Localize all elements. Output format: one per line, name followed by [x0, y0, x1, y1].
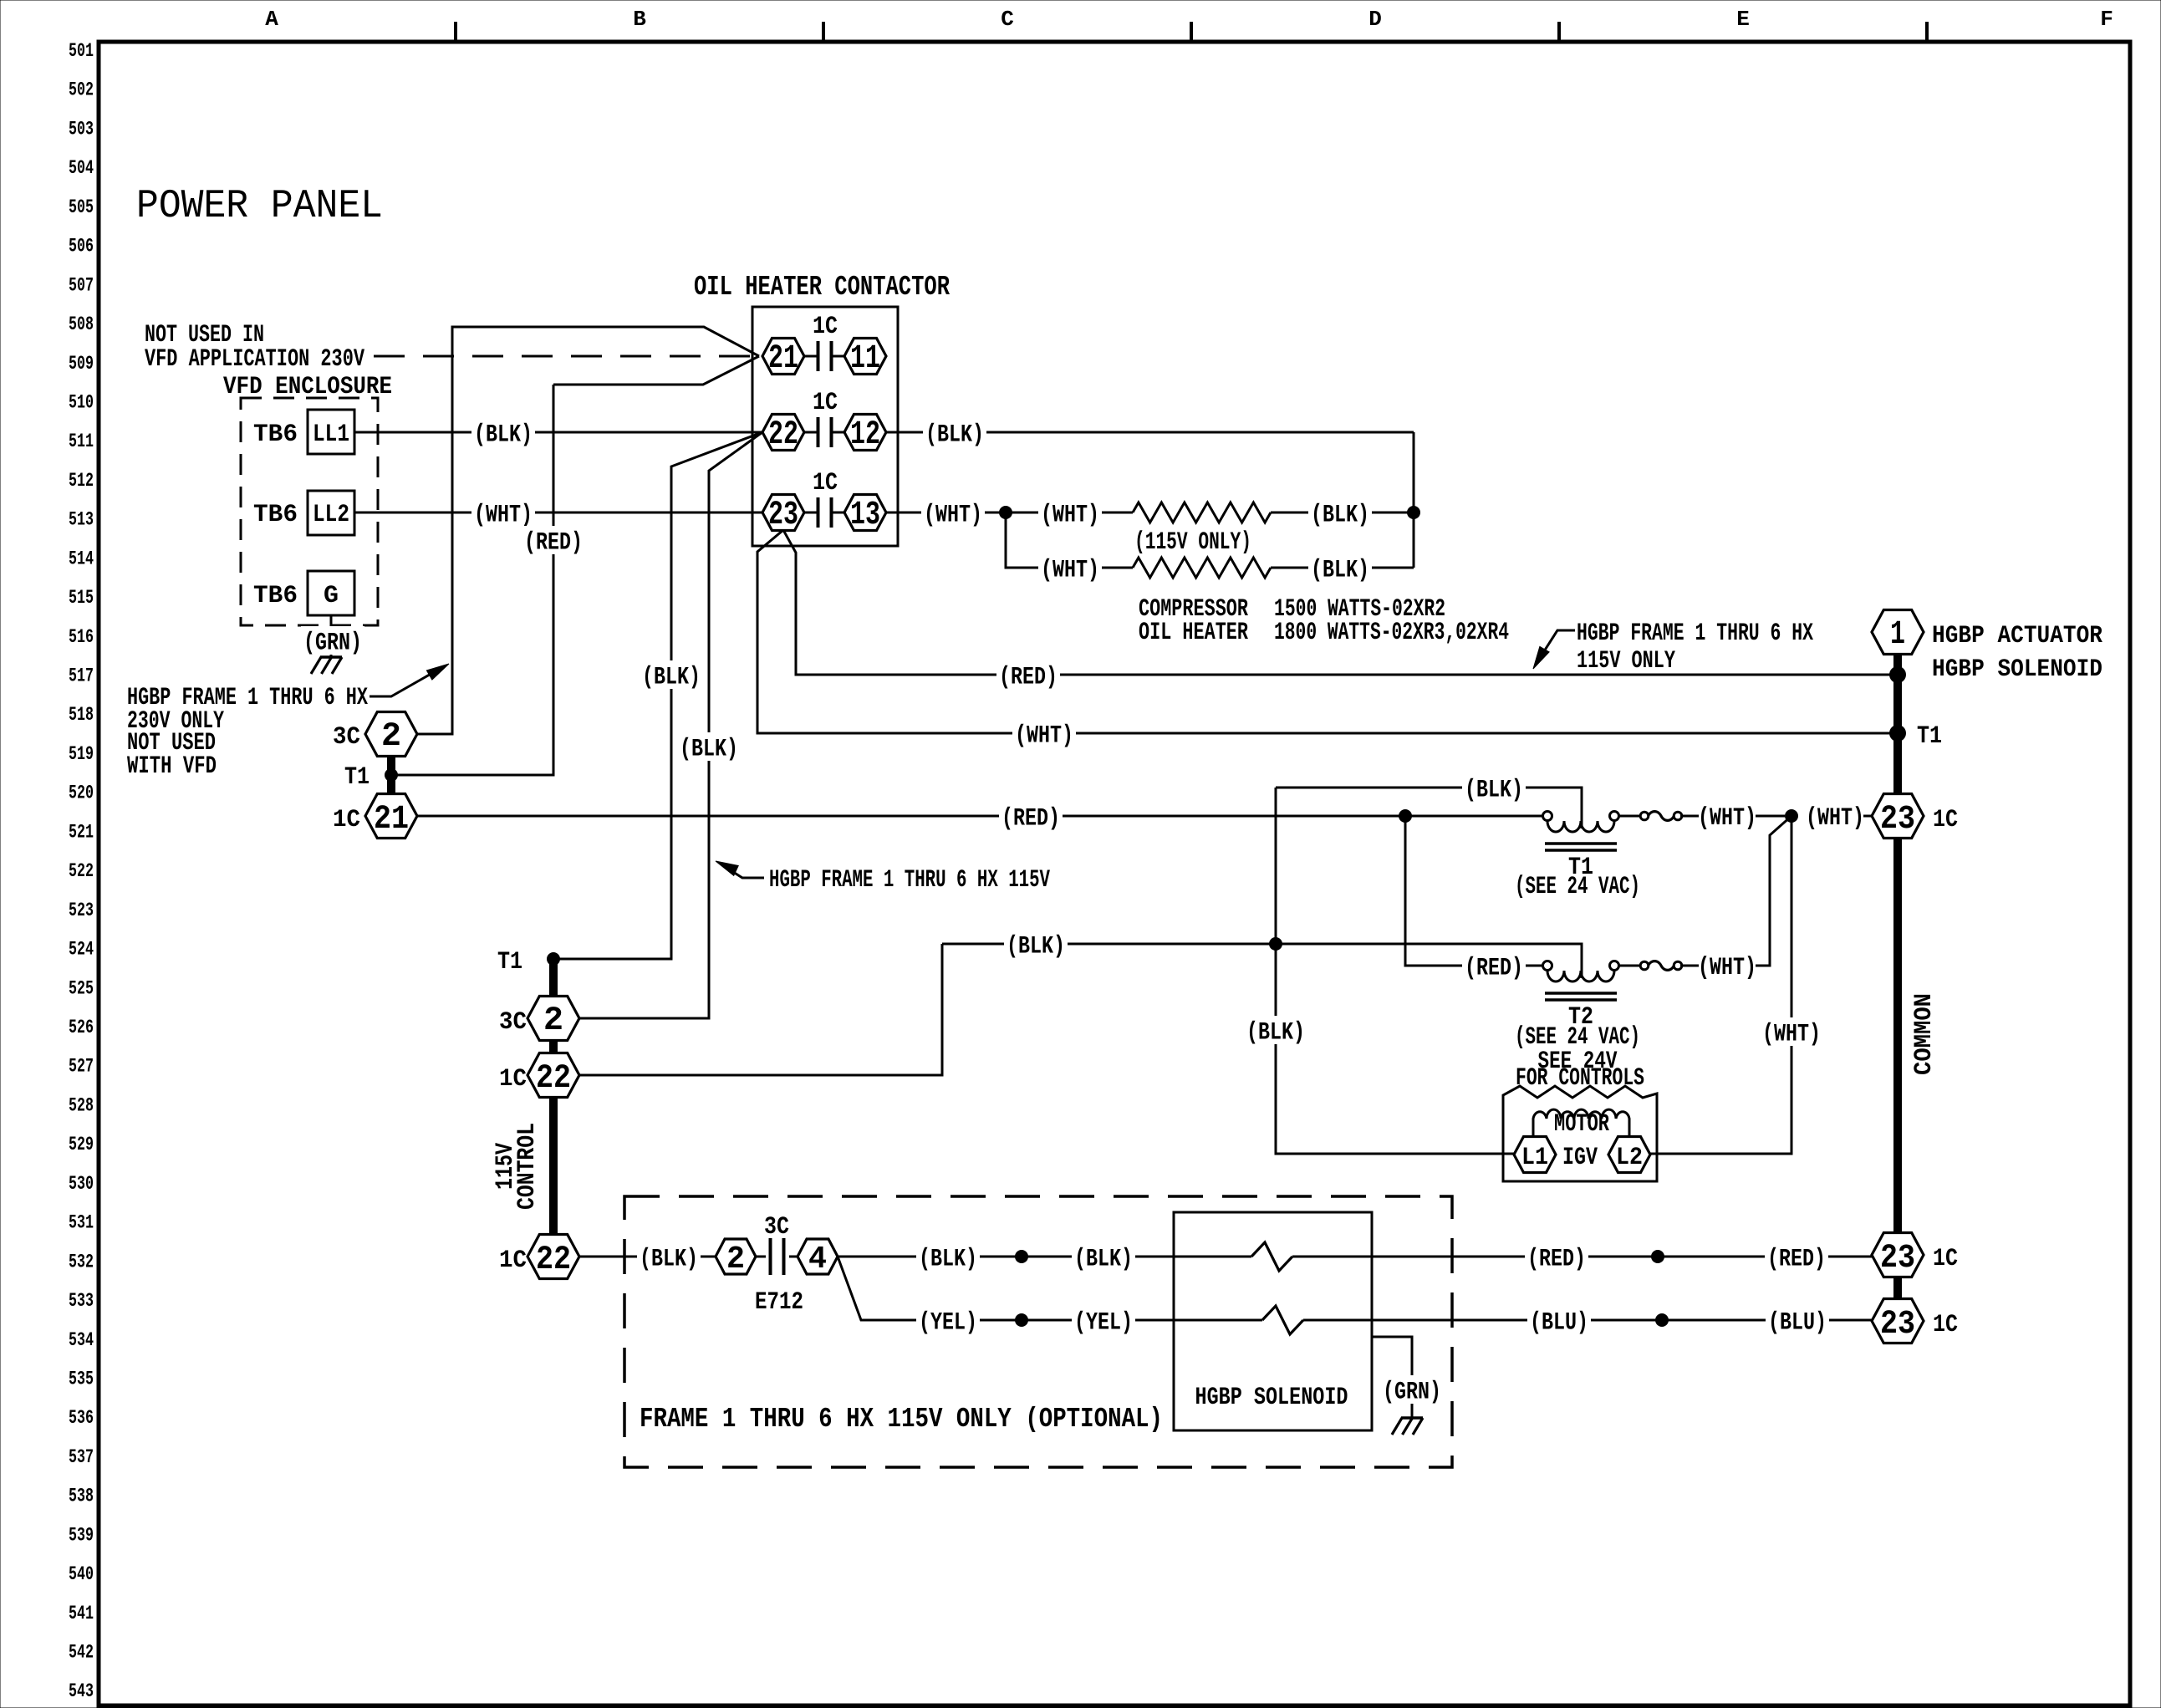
svg-text:(GRN): (GRN)	[303, 630, 362, 658]
svg-text:MOTOR: MOTOR	[1554, 1110, 1609, 1139]
wire 22 to (BLK) vertical x848	[579, 432, 762, 1018]
junction dot WHT x2143	[1785, 809, 1798, 823]
svg-text:3C: 3C	[764, 1213, 789, 1241]
vertical resistor join x1691	[1413, 432, 1415, 568]
svg-text:WITH VFD: WITH VFD	[127, 752, 217, 781]
svg-text:513: 513	[69, 509, 94, 531]
wire 1C-22 up to BLK rail2	[579, 944, 942, 1075]
svg-text:526: 526	[69, 1017, 94, 1038]
junction dot T2 branch	[1399, 809, 1412, 823]
wire T1 mid to x803	[553, 958, 671, 961]
svg-text:F: F	[2100, 7, 2113, 32]
svg-text:TB6: TB6	[253, 421, 298, 449]
hex 1 HGBP	[1872, 610, 1924, 655]
svg-text:1C: 1C	[333, 806, 360, 834]
fuse T1	[1618, 815, 1641, 818]
svg-text:537: 537	[69, 1446, 94, 1468]
svg-text:520: 520	[69, 783, 94, 804]
junction dot RED row	[1651, 1250, 1664, 1263]
svg-text:B: B	[633, 7, 646, 32]
wire LL1 to contact 22 (BLK)	[354, 431, 762, 434]
115V CONTROL bus	[549, 1097, 558, 1236]
svg-text:(WHT): (WHT)	[1698, 804, 1756, 833]
motor coil	[1533, 1109, 1629, 1135]
label (BLK) on x848	[677, 732, 741, 761]
VFD enclosure dashed box	[241, 398, 378, 625]
svg-text:3C: 3C	[333, 723, 360, 752]
svg-text:(BLK): (BLK)	[474, 421, 533, 450]
hex 23 1C (WHT)	[1872, 794, 1924, 839]
fuse T2	[1618, 965, 1641, 967]
svg-text:(BLU): (BLU)	[1768, 1309, 1827, 1338]
wire WHT junction down to IGV L2	[1649, 816, 1791, 1154]
svg-text:VFD APPLICATION 230V: VFD APPLICATION 230V	[145, 345, 364, 374]
svg-text:(BLK): (BLK)	[925, 421, 984, 450]
wire LL2 to contact 23 (WHT)	[354, 512, 762, 514]
junction dot WHT / T1	[1889, 725, 1906, 742]
svg-text:LL2: LL2	[313, 501, 349, 529]
svg-text:(GRN): (GRN)	[1383, 1379, 1441, 1407]
svg-text:515: 515	[69, 587, 94, 609]
contactor box	[752, 307, 898, 546]
svg-text:TB6: TB6	[253, 501, 298, 529]
junction dot BLK row	[1015, 1250, 1028, 1263]
dashed box FRAME 1 THRU 6 HX 115V ONLY (OPTIONAL)	[624, 1196, 1452, 1467]
svg-text:(BLK): (BLK)	[1465, 777, 1523, 805]
hex 4 (E712)	[798, 1239, 838, 1274]
svg-text:12: 12	[850, 416, 880, 454]
svg-text:1: 1	[1890, 616, 1905, 654]
leader arrow to row 807	[1538, 630, 1575, 660]
svg-text:(RED): (RED)	[524, 529, 583, 558]
svg-text:506: 506	[69, 236, 94, 257]
svg-text:(BLK): (BLK)	[1311, 502, 1369, 530]
svg-text:1800 WATTS-02XR3,02XR4: 1800 WATTS-02XR3,02XR4	[1274, 619, 1509, 647]
svg-text:531: 531	[69, 1212, 94, 1234]
ground symbol solenoid	[1401, 1416, 1423, 1420]
wire dashed 230V to contact 21	[374, 355, 759, 358]
label (GRN)	[301, 626, 364, 655]
svg-text:C: C	[1001, 7, 1014, 32]
svg-text:HGBP FRAME 1 THRU 6 HX: HGBP FRAME 1 THRU 6 HX	[1577, 619, 1813, 648]
svg-text:532: 532	[69, 1251, 94, 1272]
svg-text:541: 541	[69, 1603, 94, 1624]
svg-text:(BLK): (BLK)	[1246, 1019, 1305, 1048]
hex 2 (E712)	[716, 1239, 756, 1274]
svg-text:517: 517	[69, 665, 94, 687]
wire (RED) vertical to T1 node	[553, 356, 759, 385]
svg-text:(WHT): (WHT)	[1698, 954, 1756, 982]
svg-text:529: 529	[69, 1134, 94, 1155]
svg-text:(RED): (RED)	[999, 664, 1058, 692]
svg-text:2: 2	[543, 1002, 563, 1040]
svg-text:(SEE 24 VAC): (SEE 24 VAC)	[1515, 873, 1640, 901]
svg-text:22: 22	[536, 1241, 571, 1279]
wire heater2 to (BLK)	[1271, 567, 1414, 569]
svg-text:510: 510	[69, 391, 94, 413]
svg-text:528: 528	[69, 1094, 94, 1116]
svg-text:23: 23	[1880, 1306, 1915, 1343]
svg-text:COMMON: COMMON	[1910, 993, 1939, 1075]
svg-text:23: 23	[1880, 1240, 1915, 1277]
svg-text:23: 23	[768, 497, 798, 534]
contact 1C row 23-13	[804, 512, 817, 514]
top ticks	[454, 22, 457, 42]
svg-text:OIL HEATER CONTACTOR: OIL HEATER CONTACTOR	[694, 272, 950, 303]
wire hex4 to solenoid (BLK/RED row)	[838, 1256, 1251, 1258]
svg-text:516: 516	[69, 626, 94, 648]
HGBP SOLENOID box	[1174, 1212, 1372, 1430]
svg-text:543: 543	[69, 1680, 94, 1702]
svg-text:L1: L1	[1521, 1144, 1548, 1172]
svg-text:FRAME 1 THRU 6 HX 115V ONLY (O: FRAME 1 THRU 6 HX 115V ONLY (OPTIONAL)	[640, 1404, 1163, 1435]
svg-text:13: 13	[850, 497, 880, 534]
label (RED) row 807	[996, 660, 1060, 689]
transformer T1	[1547, 816, 1614, 832]
svg-text:504: 504	[69, 157, 94, 179]
label (BLK) on x1526	[1244, 1016, 1307, 1044]
svg-text:(RED): (RED)	[1767, 1246, 1826, 1274]
terminal hexagon 23	[762, 495, 804, 531]
label (WHT)	[471, 498, 535, 527]
svg-text:(WHT): (WHT)	[1015, 722, 1073, 751]
svg-text:519: 519	[69, 743, 94, 765]
junction dot YEL row	[1015, 1313, 1028, 1327]
wire (GRN) to ground	[1372, 1337, 1412, 1417]
svg-text:524: 524	[69, 939, 94, 961]
svg-text:1C: 1C	[1933, 1311, 1958, 1339]
wire heater1 to (BLK)	[1271, 512, 1414, 514]
svg-text:507: 507	[69, 274, 94, 296]
svg-text:525: 525	[69, 977, 94, 999]
svg-text:2: 2	[726, 1241, 745, 1277]
svg-text:534: 534	[69, 1329, 94, 1351]
wire 12 output (BLK) to resistors	[886, 431, 1414, 434]
svg-text:L2: L2	[1616, 1144, 1643, 1172]
svg-text:(RED): (RED)	[1002, 805, 1060, 834]
svg-text:T1: T1	[344, 763, 370, 792]
svg-text:D: D	[1368, 7, 1382, 32]
svg-text:511: 511	[69, 431, 94, 452]
svg-text:542: 542	[69, 1642, 94, 1664]
break jog top	[1251, 1242, 1292, 1271]
svg-text:1C: 1C	[499, 1065, 527, 1094]
wire 1C-21 to T1 primary (RED)	[417, 815, 1543, 818]
svg-text:(BLK): (BLK)	[919, 1246, 977, 1274]
svg-text:521: 521	[69, 821, 94, 843]
svg-text:(WHT): (WHT)	[1041, 502, 1099, 530]
terminal hexagon 21	[762, 339, 804, 375]
wire (BLK) rail to T1 tap	[1276, 788, 1582, 829]
label (BLK) on x803	[640, 660, 703, 689]
svg-text:539: 539	[69, 1524, 94, 1546]
svg-text:(BLK): (BLK)	[680, 736, 738, 764]
svg-text:E: E	[1736, 7, 1750, 32]
svg-text:OIL HEATER: OIL HEATER	[1139, 619, 1248, 647]
svg-text:530: 530	[69, 1173, 94, 1195]
wire 13 output (WHT)	[886, 512, 1133, 514]
svg-text:503: 503	[69, 118, 94, 140]
COMMON bus upper	[1893, 654, 1902, 794]
svg-text:522: 522	[69, 860, 94, 882]
wire 22 to (BLK) vertical x803	[553, 432, 762, 959]
junction dot heater right	[1407, 506, 1420, 519]
svg-text:HGBP FRAME 1 THRU 6 HX 115V: HGBP FRAME 1 THRU 6 HX 115V	[769, 866, 1050, 895]
svg-text:(115V ONLY): (115V ONLY)	[1134, 528, 1251, 557]
junction dot x1526	[1269, 937, 1282, 951]
svg-text:HGBP ACTUATOR: HGBP ACTUATOR	[1932, 622, 2102, 650]
wire vertical x1526 to IGV L1	[1276, 788, 1515, 1154]
svg-text:LL1: LL1	[313, 421, 349, 449]
branch to lower heater	[1006, 512, 1133, 568]
svg-text:1C: 1C	[813, 469, 838, 497]
svg-text:22: 22	[768, 416, 798, 454]
wire 3C-2 loop to contact 21	[417, 327, 759, 734]
hex L2	[1608, 1137, 1650, 1173]
svg-text:2: 2	[381, 718, 401, 756]
wire hex4 diagonal to YEL row	[838, 1257, 1262, 1320]
junction dot RED	[1889, 666, 1906, 683]
svg-text:505: 505	[69, 196, 94, 218]
ground symbol VFD	[320, 655, 342, 659]
svg-text:540: 540	[69, 1563, 94, 1585]
wire RED drop to T2	[1405, 816, 1543, 966]
svg-text:11: 11	[850, 340, 880, 378]
svg-text:1C: 1C	[499, 1247, 527, 1275]
contact 1C row 22-12	[804, 431, 817, 434]
terminal hexagon 12	[844, 415, 886, 451]
svg-text:115V ONLY: 115V ONLY	[1577, 647, 1675, 676]
bus stub	[1893, 1277, 1902, 1299]
contact 1C row 21-11	[804, 355, 817, 358]
leader arrow to wire x541	[370, 669, 440, 696]
svg-text:HGBP SOLENOID: HGBP SOLENOID	[1195, 1384, 1348, 1412]
hex 23 1C (RED)	[1872, 1233, 1924, 1277]
junction dot heater	[999, 506, 1012, 519]
svg-text:523: 523	[69, 900, 94, 921]
wire 23 to (RED) row y807	[783, 530, 1891, 675]
wire G to ground	[330, 615, 333, 657]
svg-text:4: 4	[808, 1241, 827, 1277]
svg-text:21: 21	[768, 340, 798, 378]
svg-text:22: 22	[536, 1060, 571, 1098]
terminal hexagon 11	[844, 339, 886, 375]
hex 23 1C (BLU)	[1872, 1299, 1924, 1343]
label (RED) on vertical	[522, 526, 585, 554]
svg-text:502: 502	[69, 79, 94, 101]
svg-text:(BLK): (BLK)	[642, 664, 701, 692]
terminal hexagon 13	[844, 495, 886, 531]
break jog bottom	[1262, 1306, 1303, 1334]
svg-text:(WHT): (WHT)	[924, 502, 982, 530]
resistor heater 2	[1133, 558, 1271, 578]
svg-text:514: 514	[69, 548, 94, 569]
svg-text:23: 23	[1880, 801, 1915, 839]
svg-text:(YEL): (YEL)	[919, 1309, 977, 1338]
resistor heater 1	[1133, 502, 1271, 523]
wire up to WHT junction	[1756, 816, 1791, 966]
COMMON bus lower	[1893, 838, 1902, 1233]
transformer T2	[1547, 966, 1614, 981]
svg-text:1C: 1C	[1933, 1245, 1958, 1273]
wire 1C-22b to E712	[579, 1256, 716, 1258]
motor IGV box with zigzag top	[1503, 1086, 1657, 1181]
svg-text:(BLK): (BLK)	[1007, 933, 1065, 961]
label (WHT) row 877	[1012, 719, 1076, 747]
contact E712 3C	[756, 1256, 766, 1258]
svg-text:1C: 1C	[1933, 806, 1958, 834]
svg-text:(RED): (RED)	[1465, 955, 1523, 983]
svg-text:FOR CONTROLS: FOR CONTROLS	[1516, 1064, 1644, 1093]
svg-text:(WHT): (WHT)	[1806, 804, 1864, 833]
svg-text:527: 527	[69, 1056, 94, 1078]
svg-text:HGBP SOLENOID: HGBP SOLENOID	[1932, 655, 2102, 684]
svg-text:T1: T1	[1917, 722, 1942, 751]
svg-text:533: 533	[69, 1290, 94, 1312]
svg-text:(BLK): (BLK)	[640, 1246, 698, 1274]
svg-text:501: 501	[69, 40, 94, 62]
svg-text:(RED): (RED)	[1527, 1246, 1586, 1274]
svg-text:IGV: IGV	[1562, 1144, 1598, 1172]
svg-text:21: 21	[374, 801, 409, 839]
svg-text:TB6: TB6	[253, 582, 298, 610]
svg-text:(WHT): (WHT)	[474, 502, 533, 530]
svg-text:536: 536	[69, 1407, 94, 1429]
svg-text:E712: E712	[755, 1288, 803, 1317]
svg-text:508: 508	[69, 314, 94, 335]
label (BLK)	[471, 418, 535, 446]
svg-text:(BLU): (BLU)	[1530, 1309, 1588, 1338]
svg-text:(WHT): (WHT)	[1041, 557, 1099, 585]
svg-text:(YEL): (YEL)	[1074, 1309, 1133, 1338]
svg-text:509: 509	[69, 353, 94, 375]
svg-text:(WHT): (WHT)	[1762, 1021, 1821, 1049]
terminal hexagon 22	[762, 415, 804, 451]
svg-text:G: G	[324, 582, 339, 610]
svg-text:CONTROL: CONTROL	[513, 1123, 542, 1210]
svg-text:A: A	[265, 7, 278, 32]
hex L1	[1514, 1137, 1556, 1173]
svg-text:538: 538	[69, 1486, 94, 1507]
svg-text:T1: T1	[497, 948, 522, 976]
junction dot BLU row	[1655, 1313, 1669, 1327]
leader arrow to x848	[724, 866, 764, 878]
wire (BLK) rail2 to T2 tap	[942, 944, 1582, 978]
svg-text:535: 535	[69, 1368, 94, 1389]
svg-text:1C: 1C	[813, 313, 838, 341]
svg-text:3C: 3C	[499, 1008, 527, 1037]
svg-text:(BLK): (BLK)	[1311, 557, 1369, 585]
wire 23 to (WHT) row y877	[757, 530, 1891, 733]
svg-text:512: 512	[69, 470, 94, 492]
svg-text:1C: 1C	[813, 389, 838, 417]
svg-text:POWER PANEL: POWER PANEL	[136, 184, 383, 229]
svg-text:(BLK): (BLK)	[1074, 1246, 1133, 1274]
svg-text:518: 518	[69, 704, 94, 726]
